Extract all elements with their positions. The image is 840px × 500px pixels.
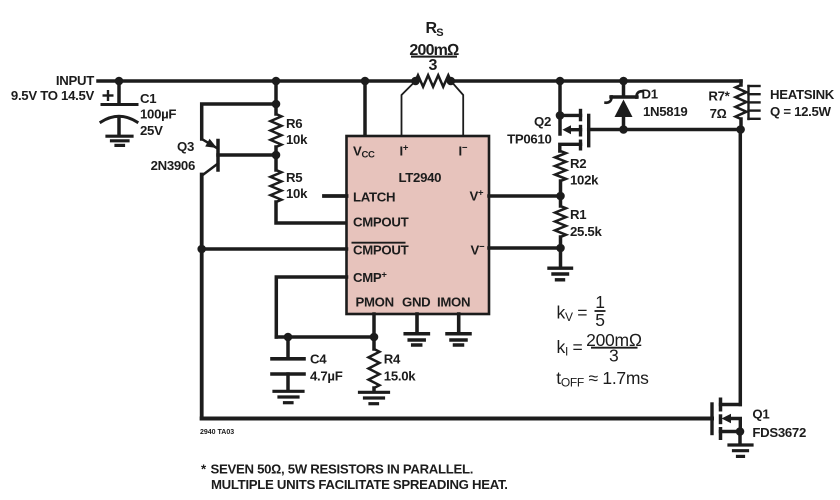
wire: top input rail [98,79,416,83]
svg-text:IMON: IMON [437,295,470,310]
svg-text:15.0k: 15.0k [384,369,416,384]
svg-text:2N3906: 2N3906 [151,158,195,173]
wire: I+ sense line [402,81,416,136]
svg-text:R4: R4 [384,352,401,367]
wire: PMON lead [372,314,376,337]
diode D1 (1N5819 schottky) [622,81,626,96]
resistor R7 (seven 50 ohm in parallel) [739,81,743,85]
wire: LATCH stub [324,194,347,198]
svg-text:5: 5 [595,310,604,330]
svg-text:HEATSINK: HEATSINK [770,87,835,102]
svg-text:SEVEN 50Ω, 5W RESISTORS IN PAR: SEVEN 50Ω, 5W RESISTORS IN PARALLEL. [211,462,474,477]
capacitor C1 [117,81,121,103]
label C1 plus sign [103,90,114,101]
wire: Q3 collector to bottom rail [200,175,204,419]
svg-text:100µF: 100µF [140,107,176,122]
svg-text:1N5819: 1N5819 [643,104,687,119]
wire: CMP+ lead [276,277,346,337]
wire: CMPOUT-bar to Q3 collector [202,247,347,251]
wire: V+ lead [489,194,561,198]
svg-text:kI =: kI = [557,337,583,359]
svg-text:2940 TA03: 2940 TA03 [200,429,234,436]
ground (C1) [107,136,132,145]
svg-text:R7*: R7* [708,89,730,104]
svg-text:kV =: kV = [557,303,588,325]
svg-text:3: 3 [609,346,618,366]
transistor Q1 (FDS3672) [721,403,741,406]
node: input rail junction dots [115,77,628,86]
heatsink comb on R7 [749,86,760,119]
svg-text:INPUT: INPUT [56,73,94,88]
ground (GND pin) [405,334,428,345]
svg-text:4.7µF: 4.7µF [310,369,343,384]
ground (R4) [360,392,389,403]
svg-text:9.5V TO 14.5V: 9.5V TO 14.5V [11,88,95,103]
svg-text:10k: 10k [286,132,308,147]
svg-text:MULTIPLE UNITS FACILITATE SPRE: MULTIPLE UNITS FACILITATE SPREADING HEAT… [211,477,508,492]
svg-text:CMPOUT: CMPOUT [353,214,409,229]
svg-text:102k: 102k [570,173,599,188]
resistor RS (200mOhm/3) [416,75,451,87]
svg-text:25.5k: 25.5k [570,224,602,239]
svg-text:25V: 25V [140,123,163,138]
wire: GND lead [415,314,419,332]
svg-text:TP0610: TP0610 [507,132,551,147]
resistor R5 [274,155,278,170]
op-amp U1: LT2940 IC body [347,136,490,314]
svg-text:R1: R1 [570,207,586,222]
wire: I- sense line [451,81,463,136]
svg-text:10k: 10k [286,186,308,201]
ground (IMON pin) [447,334,470,345]
wire: gate/output rail (Q2 gate - D1 anode - R7 bottom) [589,128,741,132]
wire: V- lead [489,246,561,250]
svg-text:Q = 12.5W: Q = 12.5W [770,104,832,119]
wire: Vcc feed [363,81,367,136]
resistor R2 [555,151,566,181]
svg-text:7Ω: 7Ω [710,106,727,121]
svg-text:CMPOUT: CMPOUT [353,243,409,258]
svg-text:C1: C1 [140,91,156,106]
node: Q3 base junction [272,151,281,160]
ground (C4) [274,391,303,402]
svg-text:R5: R5 [286,170,302,185]
resistor R1 [559,196,563,206]
ground (Q1) [729,445,752,456]
svg-text:Q3: Q3 [177,139,194,154]
svg-text:R6: R6 [286,116,302,131]
wire: CMP+/C4/R4/PMON node [276,335,374,339]
svg-text:FDS3672: FDS3672 [752,425,806,440]
svg-text:C4: C4 [310,352,327,367]
svg-text:LATCH: LATCH [353,190,395,205]
svg-text:Q1: Q1 [752,407,769,422]
transistor Q2 (TP0610) [558,81,562,134]
node: Q3 emitter junction [272,100,281,109]
resistor R4 [372,337,376,349]
svg-text:LT2940: LT2940 [399,170,442,185]
svg-text:3: 3 [428,57,437,74]
ground (R1) [559,248,563,266]
svg-text:PMON: PMON [356,295,394,310]
resistor R6 [274,81,278,114]
svg-text:R2: R2 [570,156,586,171]
svg-text:D1: D1 [642,86,658,101]
wire: output rail down to Q1 drain [739,129,743,405]
svg-text:Q2: Q2 [534,114,551,129]
transistor Q3 [202,104,276,139]
wire: IMON lead [457,314,461,332]
capacitor C4 [286,337,290,357]
wire: bottom rail to Q1 gate [202,417,712,421]
svg-text:GND: GND [402,295,430,310]
